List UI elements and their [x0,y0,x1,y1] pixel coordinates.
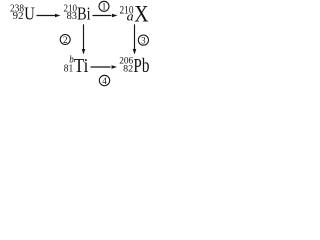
wire arrow U to Bi [37,14,61,18]
wire arrow Bi to X [93,14,118,18]
nuclide U-238 mass number 238 [10,3,24,14]
nuclide Bi-210 symbol Bi [77,4,91,24]
wire arrow X down to Pb [133,24,137,54]
svg-text:X: X [134,2,149,27]
nuclide U-238 symbol U [24,4,35,24]
svg-text:4: 4 [102,76,107,86]
nuclide X-210 mass number 210 [120,2,134,16]
wire arrow Tl to Pb [91,65,118,69]
svg-text:82: 82 [123,64,133,74]
nuclide Ti atomic number 81 [64,63,74,74]
label circled 1 [99,1,109,11]
nuclide Bi-210 atomic number 83 [67,11,77,22]
nuclide X-210 atomic number a [127,9,134,23]
svg-text:1: 1 [102,2,107,12]
label circled 2 [60,35,70,45]
nuclide U-238 atomic number 92 [13,11,24,22]
nuclide Pb-206 symbol Pb [133,55,149,77]
nuclide Pb-206 mass number 206 [119,57,133,67]
nuclide Pb-206 atomic number 82 [123,64,133,74]
label circled 3 [138,35,148,45]
svg-text:81: 81 [64,63,74,74]
svg-text:Pb: Pb [133,55,149,77]
nuclide Ti symbol Ti [74,55,89,77]
svg-text:3: 3 [141,35,146,45]
svg-text:83: 83 [67,11,77,22]
svg-text:a: a [127,9,134,23]
svg-text:2: 2 [63,35,68,45]
label circled 4 [99,75,109,86]
wire arrow Bi down to Tl [82,24,86,54]
svg-text:Bi: Bi [77,4,91,24]
nuclide Ti mass number b [69,54,74,65]
svg-text:Ti: Ti [74,55,89,77]
svg-text:92: 92 [13,11,24,22]
nuclide Bi-210 mass number 210 [64,3,78,14]
svg-text:U: U [24,4,35,24]
nuclide X-210 symbol X [134,2,149,27]
